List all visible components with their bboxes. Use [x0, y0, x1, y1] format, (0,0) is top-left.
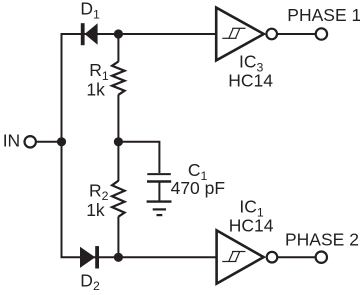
svg-text:1k: 1k	[86, 79, 105, 99]
IC1 output bubble	[267, 252, 278, 263]
wire: top horizontal (rail corner through D1 to IC3 input)	[61, 33, 217, 35]
IN terminal circle	[25, 136, 36, 147]
wire: middle rail lower segment (R2 to bottom junction)	[117, 217, 119, 258]
IC1 hysteresis symbol	[222, 252, 245, 262]
IC3 hysteresis symbol	[222, 28, 245, 38]
wire: IN terminal to left rail	[36, 141, 61, 143]
capacitor C1 plates	[147, 174, 171, 181]
op-amp U2: Schmitt inverter IC1 triangle	[217, 230, 264, 283]
wire: middle rail between R1 and R2	[117, 95, 119, 181]
IC3 output bubble	[266, 29, 277, 40]
diode D1 (cathode bar left, triangle pointing left)	[81, 23, 98, 45]
wire: IC1 output to PHASE 2 terminal	[278, 256, 316, 258]
node: IN junction on left rail	[57, 137, 66, 146]
node: middle junction (R1/R2/C1)	[114, 137, 123, 146]
wire: capacitor branch (mid junction right then down to C1)	[118, 142, 159, 173]
diode D2 (triangle pointing right, cathode bar right)	[80, 246, 99, 268]
ground symbol	[147, 202, 172, 216]
wire: middle rail upper segment (top junction to R1)	[117, 34, 119, 62]
resistor R1 zigzag	[112, 62, 125, 95]
svg-text:HC14: HC14	[228, 70, 273, 90]
wire: left vertical rail	[61, 34, 63, 257]
wire: C1 bottom plate to ground	[158, 182, 160, 201]
wire: bottom horizontal (rail corner through D2 to IC1 input)	[61, 256, 217, 258]
op-amp U1: Schmitt inverter IC3 triangle	[216, 8, 264, 61]
svg-text:1k: 1k	[86, 200, 105, 220]
svg-text:PHASE 2: PHASE 2	[285, 230, 359, 250]
svg-text:470 pF: 470 pF	[171, 178, 225, 198]
PHASE 2 terminal circle	[316, 252, 327, 263]
svg-text:HC14: HC14	[229, 216, 274, 236]
wire: IC3 output to PHASE 1 terminal	[277, 33, 315, 35]
node: top junction (D1/R1)	[114, 29, 123, 38]
svg-text:PHASE 1: PHASE 1	[287, 5, 360, 25]
svg-text:IN: IN	[3, 131, 21, 151]
node: bottom junction (D2/R2)	[114, 253, 123, 262]
resistor R2 zigzag	[112, 181, 125, 217]
PHASE 1 terminal circle	[316, 28, 327, 39]
